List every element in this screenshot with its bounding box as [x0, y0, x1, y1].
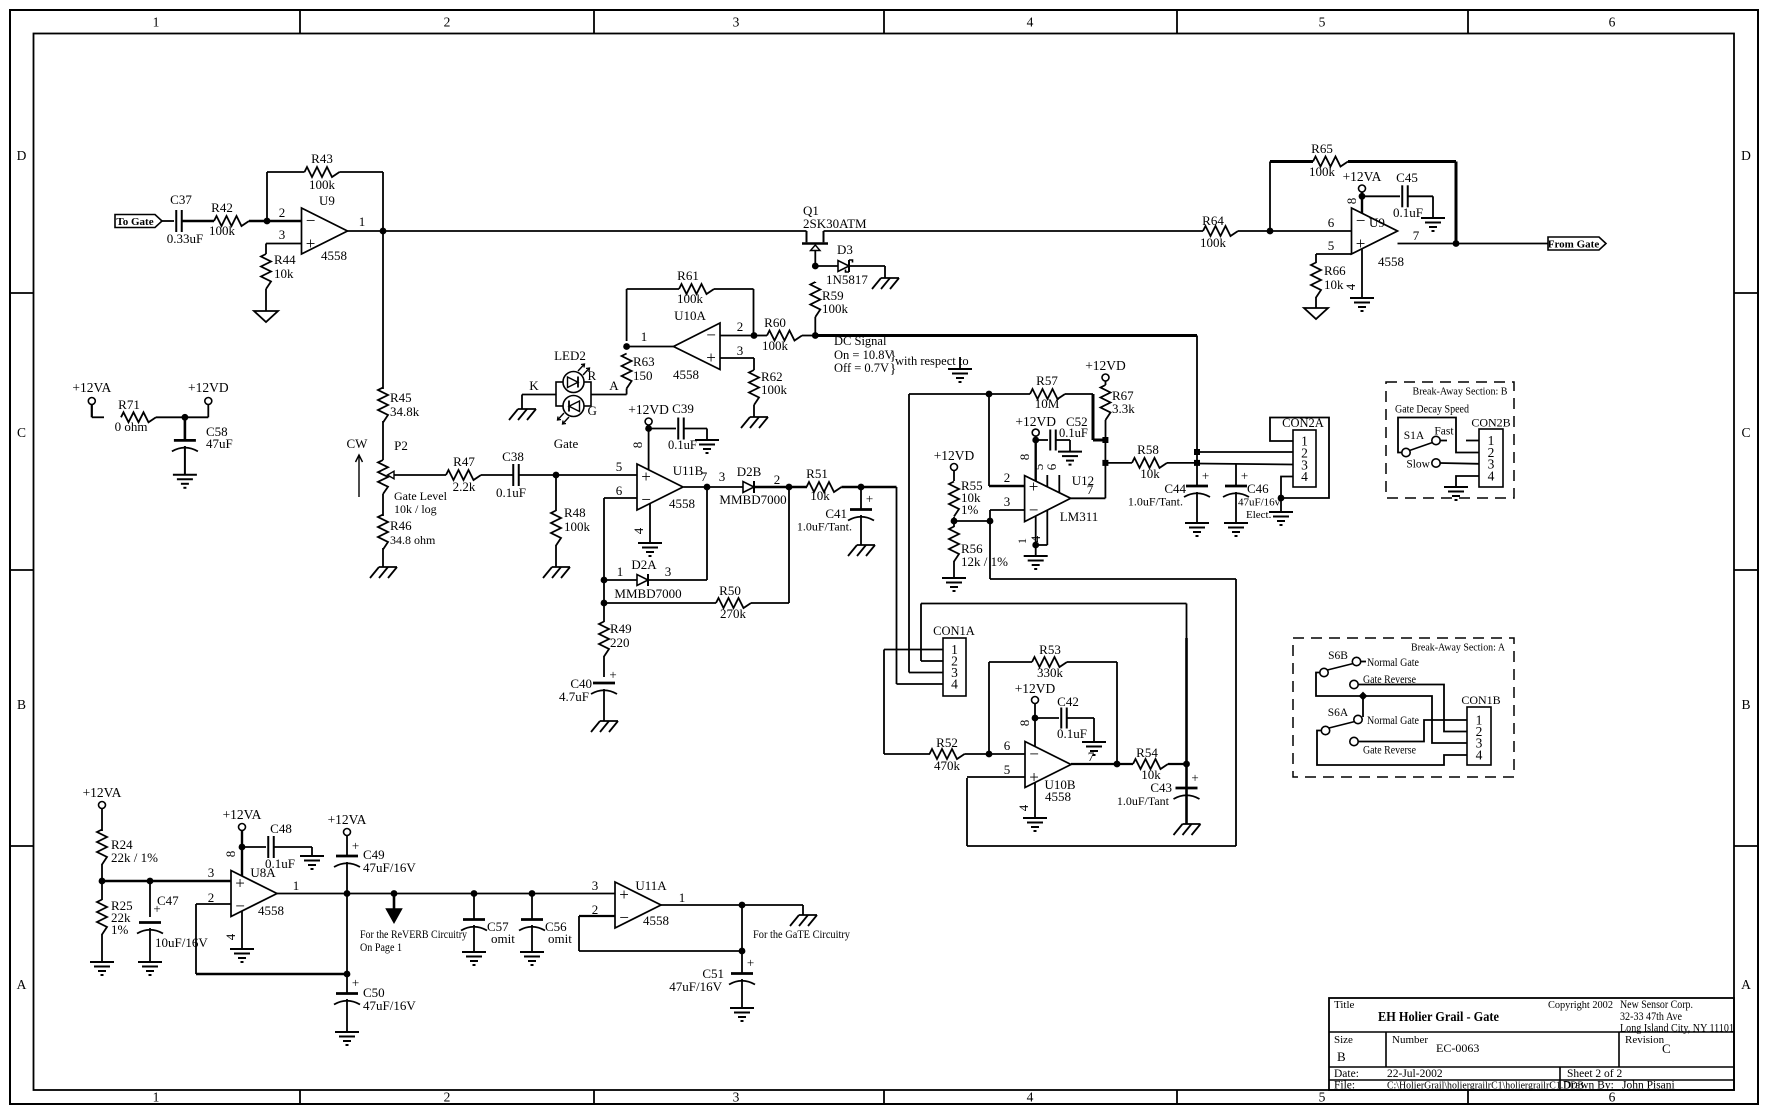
power +12VD	[628, 402, 669, 425]
wire	[990, 578, 1236, 580]
svg-text:B: B	[1741, 697, 1750, 712]
wire	[1235, 464, 1237, 487]
resistor R64	[1200, 213, 1238, 250]
svg-text:7: 7	[1413, 228, 1420, 243]
node	[751, 332, 758, 339]
wire	[815, 265, 838, 267]
CW arrow	[347, 436, 369, 497]
wire	[720, 358, 754, 370]
svg-text:R43: R43	[311, 151, 333, 166]
ground	[230, 949, 254, 962]
node A label	[609, 378, 619, 393]
wire	[1036, 439, 1048, 441]
node	[1032, 437, 1039, 444]
wire	[156, 416, 208, 418]
diode D3	[826, 242, 868, 287]
svg-text:+12VA: +12VA	[72, 380, 111, 395]
svg-text:4: 4	[223, 933, 238, 940]
wire	[265, 244, 267, 255]
node	[264, 218, 271, 225]
resistor R58	[1132, 442, 1167, 481]
ground	[543, 567, 570, 578]
svg-text:2: 2	[737, 319, 744, 334]
svg-text:Drawn By:: Drawn By:	[1563, 1080, 1614, 1092]
ground	[1304, 308, 1328, 319]
svg-text:4: 4	[1016, 804, 1031, 811]
wire	[988, 662, 990, 754]
pin 6 label	[616, 483, 623, 498]
wire	[989, 510, 991, 521]
svg-text:+12VD: +12VD	[188, 380, 229, 395]
op-amp U8A	[231, 865, 284, 918]
pin 4 stub	[1343, 249, 1362, 298]
svg-text:4: 4	[951, 677, 958, 692]
ground	[173, 475, 197, 488]
svg-text:C45: C45	[1396, 170, 1418, 185]
pin 1 stub	[1466, 440, 1479, 442]
wire	[842, 486, 897, 488]
pin 8 stub	[1017, 440, 1036, 481]
svg-text:C38: C38	[502, 449, 524, 464]
svg-text:4.7uF: 4.7uF	[559, 689, 589, 704]
wire	[207, 405, 209, 418]
svg-text:+: +	[641, 467, 651, 486]
svg-text:S6B: S6B	[1328, 650, 1348, 662]
pin 8 stub	[223, 831, 242, 876]
svg-text:R71: R71	[118, 397, 140, 412]
pin 7 label	[1087, 482, 1094, 497]
svg-text:1.0uF/Tant: 1.0uF/Tant	[1117, 794, 1170, 808]
svg-text:EC-0063: EC-0063	[1436, 1041, 1479, 1055]
svg-text:R58: R58	[1137, 442, 1159, 457]
wire	[1317, 731, 1467, 766]
wire	[242, 846, 266, 848]
svg-text:Revision: Revision	[1625, 1034, 1665, 1046]
off-page arrow	[387, 894, 402, 923]
node	[1032, 542, 1039, 549]
svg-text:C: C	[1662, 1041, 1671, 1056]
svg-text:Long Island City, NY 11101: Long Island City, NY 11101	[1620, 1023, 1734, 1035]
node	[1453, 240, 1460, 247]
node	[1032, 715, 1039, 722]
wire	[953, 517, 955, 521]
power +12VD	[1015, 414, 1056, 436]
ground	[90, 962, 114, 975]
wire	[196, 973, 347, 975]
label	[1395, 404, 1469, 416]
connector CON1B	[1461, 693, 1500, 765]
wire	[989, 661, 1032, 663]
svg-text:7: 7	[701, 469, 708, 484]
wire	[348, 230, 807, 232]
wire	[896, 487, 898, 684]
svg-text:+12VD: +12VD	[1015, 681, 1056, 696]
svg-text:Fast: Fast	[1434, 426, 1454, 438]
resistor R48	[551, 505, 591, 546]
svg-text:Break-Away Section: A: Break-Away Section: A	[1411, 642, 1505, 654]
wire	[182, 220, 214, 222]
resistor R54	[1133, 745, 1168, 782]
ground	[300, 856, 324, 869]
break-away box B	[1386, 382, 1514, 498]
svg-text:100k: 100k	[677, 291, 704, 306]
svg-text:+: +	[619, 885, 629, 904]
svg-text:4558: 4558	[669, 496, 695, 511]
capacitor C37	[167, 192, 203, 246]
svg-text:with respect to: with respect to	[895, 354, 969, 368]
resistor R60	[762, 315, 802, 353]
resistor R57	[1030, 373, 1065, 411]
svg-text:C43: C43	[1150, 780, 1172, 795]
label	[1367, 657, 1419, 669]
svg-text:R46: R46	[390, 518, 412, 533]
pin 7/3 labels	[701, 469, 726, 484]
wire	[382, 172, 384, 231]
capacitor C42	[1057, 694, 1087, 741]
pin 5 label	[616, 459, 623, 474]
ground	[638, 543, 662, 556]
pin 4 stub	[223, 911, 242, 949]
node	[99, 878, 106, 885]
wire	[967, 845, 1236, 847]
comparator U12 LM311	[1025, 473, 1099, 524]
node	[344, 890, 351, 897]
label	[1367, 715, 1419, 727]
svg-text:omit: omit	[548, 931, 572, 946]
wire	[649, 428, 676, 430]
resistor R67	[1101, 385, 1136, 420]
wire	[579, 915, 615, 917]
resistor R63	[622, 354, 655, 389]
wire	[101, 881, 103, 962]
capacitor C51	[669, 955, 755, 994]
svg-text:2SK30ATM: 2SK30ATM	[803, 216, 867, 231]
svg-text:1N5817: 1N5817	[826, 272, 868, 287]
svg-text:4: 4	[1027, 15, 1034, 30]
svg-text:470k: 470k	[934, 758, 961, 773]
pin 1/4 stubs	[1015, 510, 1047, 545]
svg-text:150: 150	[633, 368, 653, 383]
wire	[627, 346, 674, 348]
node	[1359, 193, 1366, 200]
wire	[921, 603, 1187, 605]
capacitor C41	[797, 491, 874, 534]
wire	[626, 289, 628, 341]
svg-text:4558: 4558	[673, 367, 699, 382]
resistor R66	[1311, 263, 1346, 298]
ground	[1023, 818, 1047, 831]
svg-text:+12VA: +12VA	[328, 812, 367, 827]
svg-text:+: +	[1029, 477, 1039, 496]
pin 3 label	[1004, 494, 1011, 509]
node	[391, 890, 398, 897]
svg-text:Break-Away Section: B: Break-Away Section: B	[1413, 386, 1508, 398]
capacitor C46	[1223, 468, 1281, 521]
wire	[603, 498, 605, 580]
ground	[848, 545, 875, 556]
resistor R43	[305, 151, 340, 192]
svg-text:D: D	[1741, 148, 1751, 163]
svg-text:+: +	[306, 234, 316, 253]
wire	[720, 335, 754, 337]
svg-text:R53: R53	[1039, 642, 1061, 657]
svg-text:John Pisani: John Pisani	[1622, 1080, 1675, 1092]
svg-text:Gate Reverse: Gate Reverse	[1363, 745, 1416, 757]
node	[645, 425, 652, 432]
op-amp U10B	[1025, 742, 1076, 805]
svg-text:−: −	[619, 908, 629, 927]
svg-text:10k: 10k	[1140, 466, 1160, 481]
svg-text:0.1uF: 0.1uF	[1393, 205, 1423, 220]
wire	[953, 521, 955, 578]
svg-text:−: −	[235, 897, 245, 916]
ground	[335, 1032, 359, 1045]
ground	[462, 952, 486, 965]
svg-text:MMBD7000: MMBD7000	[614, 586, 681, 601]
svg-text:R: R	[588, 368, 597, 383]
capacitor C49	[334, 838, 416, 875]
svg-text:3: 3	[733, 1090, 740, 1105]
pin 4 stub	[631, 504, 650, 543]
svg-text:+: +	[866, 491, 873, 506]
wire	[1270, 160, 1313, 163]
svg-text:B: B	[1337, 1049, 1346, 1064]
node	[601, 577, 608, 584]
pin 2 label	[279, 205, 286, 220]
wire	[1071, 763, 1133, 765]
svg-text:32-33 47th Ave: 32-33 47th Ave	[1620, 1011, 1682, 1023]
wire	[346, 836, 348, 857]
svg-text:Date:: Date:	[1334, 1068, 1359, 1080]
node	[1114, 761, 1121, 768]
wire	[909, 672, 943, 674]
title block text	[1334, 999, 1734, 1092]
capacitor C44	[1128, 468, 1210, 509]
pin 3 label	[279, 227, 286, 242]
ground	[948, 369, 972, 382]
wire	[340, 171, 384, 173]
svg-text:Gate Level: Gate Level	[394, 489, 448, 503]
wire	[266, 243, 302, 245]
svg-text:5: 5	[1004, 762, 1011, 777]
node	[858, 484, 865, 491]
svg-text:10k: 10k	[274, 266, 294, 281]
capacitor C56	[519, 919, 572, 946]
wire	[603, 689, 605, 721]
svg-text:3: 3	[592, 878, 599, 893]
wire	[162, 220, 174, 222]
svg-text:EH Holier Grail - Gate: EH Holier Grail - Gate	[1378, 1010, 1499, 1025]
resistor R62	[749, 369, 788, 405]
node	[471, 890, 478, 897]
svg-text:K: K	[529, 378, 539, 393]
wire	[921, 604, 943, 662]
svg-text:1: 1	[641, 329, 648, 344]
svg-text:2: 2	[279, 205, 286, 220]
svg-text:7: 7	[1088, 749, 1095, 764]
svg-text:5: 5	[1328, 238, 1335, 253]
capacitor C38	[496, 449, 526, 500]
svg-text:DC Signal: DC Signal	[834, 334, 887, 348]
svg-text:12k / 1%: 12k / 1%	[961, 554, 1008, 569]
svg-text:1: 1	[1015, 538, 1029, 544]
svg-text:omit: omit	[491, 931, 515, 946]
svg-text:D: D	[17, 148, 27, 163]
wire	[531, 894, 533, 953]
node	[986, 391, 993, 398]
wire	[990, 509, 1025, 511]
wire	[1196, 492, 1198, 523]
svg-text:A: A	[609, 378, 619, 393]
resistor R45	[378, 388, 420, 423]
svg-text:−: −	[1356, 211, 1366, 230]
wire	[849, 266, 885, 278]
svg-text:4: 4	[1343, 283, 1358, 290]
svg-text:100k: 100k	[564, 519, 591, 534]
wire	[1408, 196, 1433, 218]
svg-text:8: 8	[1017, 720, 1032, 727]
wire	[1269, 162, 1271, 232]
resistor R61	[677, 268, 714, 306]
svg-text:2.2k: 2.2k	[453, 479, 476, 494]
wire	[1316, 253, 1352, 255]
switch throw S6A reverse	[1350, 737, 1416, 756]
svg-text:0 ohm: 0 ohm	[115, 419, 148, 434]
svg-text:4: 4	[631, 527, 646, 534]
connector CON1A	[933, 624, 975, 696]
resistor R44	[261, 252, 296, 289]
ground	[942, 578, 966, 591]
wire	[555, 475, 557, 567]
svg-text:C46: C46	[1247, 481, 1269, 496]
svg-text:+: +	[1191, 770, 1198, 785]
wire	[1362, 195, 1400, 197]
svg-text:330k: 330k	[1037, 665, 1064, 680]
pin 6 label	[1004, 738, 1011, 753]
label	[1413, 386, 1508, 398]
node	[986, 751, 993, 758]
svg-text:0.1uF: 0.1uF	[496, 485, 526, 500]
wire	[714, 289, 754, 336]
svg-text:File:: File:	[1334, 1080, 1355, 1092]
wire	[184, 417, 187, 440]
svg-text:1.0uF/Tant.: 1.0uF/Tant.	[797, 520, 852, 534]
svg-text:22-Jul-2002: 22-Jul-2002	[1387, 1068, 1443, 1080]
wire	[661, 904, 742, 906]
transistor Q1	[802, 203, 867, 266]
wire	[578, 916, 580, 951]
note DC Signal	[834, 334, 969, 377]
capacitor C47	[137, 893, 208, 950]
resistor R52	[930, 735, 965, 773]
wire	[522, 395, 556, 410]
svg-text:C42: C42	[1057, 694, 1079, 709]
pin 5/6 stubs	[1031, 463, 1059, 492]
svg-text:+: +	[1029, 768, 1039, 787]
wire	[684, 429, 707, 441]
capacitor C39	[668, 401, 697, 452]
svg-text:U9: U9	[1369, 215, 1385, 230]
svg-text:47uF: 47uF	[206, 436, 233, 451]
svg-text:Sheet 2 of 2: Sheet 2 of 2	[1567, 1068, 1623, 1080]
svg-text:5: 5	[1319, 15, 1326, 30]
svg-text:100k: 100k	[1200, 235, 1227, 250]
svg-text:6: 6	[1004, 738, 1011, 753]
svg-text:6: 6	[1609, 1090, 1616, 1105]
svg-text:3: 3	[737, 343, 744, 358]
svg-text:+: +	[609, 667, 616, 682]
svg-text:For the GaTE Circuitry: For the GaTE Circuitry	[753, 929, 850, 941]
wire	[267, 171, 305, 173]
wire	[604, 602, 716, 604]
svg-text:R52: R52	[936, 735, 958, 750]
svg-text:5: 5	[1319, 1090, 1326, 1105]
pin 3 label	[208, 865, 215, 880]
svg-text:1: 1	[293, 878, 300, 893]
svg-text:3: 3	[733, 15, 740, 30]
wire	[884, 753, 930, 755]
svg-text:100k: 100k	[761, 382, 788, 397]
ground	[695, 440, 719, 453]
node	[1267, 228, 1274, 235]
svg-text:3.3k: 3.3k	[1112, 401, 1135, 416]
svg-text:U10A: U10A	[674, 308, 706, 323]
switch S6B	[1320, 650, 1366, 677]
wire	[884, 650, 943, 755]
wire	[754, 335, 815, 337]
svg-text:1.0uF/Tant.: 1.0uF/Tant.	[1128, 495, 1183, 509]
resistor R25	[97, 898, 133, 937]
diode D2A	[614, 557, 681, 601]
wire	[1035, 436, 1037, 440]
potentiometer P2	[378, 438, 448, 516]
svg-text:Gate: Gate	[554, 436, 579, 451]
svg-text:C37: C37	[170, 192, 192, 207]
wire	[102, 880, 231, 882]
power +12VA	[72, 380, 111, 405]
resistor R47	[446, 454, 481, 494]
svg-text:C48: C48	[270, 821, 292, 836]
pin 2 label	[1004, 470, 1011, 485]
wire	[603, 580, 605, 603]
svg-text:C39: C39	[672, 401, 694, 416]
svg-text:CON1B: CON1B	[1461, 693, 1500, 707]
note	[360, 929, 467, 954]
svg-text:+: +	[1241, 468, 1248, 483]
power +12VD	[1085, 358, 1126, 381]
node	[1183, 761, 1190, 768]
wire	[1398, 418, 1479, 453]
svg-text:P2: P2	[394, 438, 408, 453]
svg-text:U11A: U11A	[635, 878, 667, 893]
power +12VD	[1015, 681, 1056, 704]
svg-text:4558: 4558	[258, 903, 284, 918]
wire	[519, 474, 637, 476]
wire	[909, 393, 1030, 395]
pin 3 label	[592, 878, 599, 893]
pin 1 label	[679, 890, 686, 905]
capacitor C45	[1393, 170, 1423, 220]
power +12VA	[223, 807, 262, 831]
capacitor C58	[172, 424, 233, 451]
svg-text:+: +	[706, 348, 716, 367]
resistor R50	[716, 583, 751, 621]
svg-text:CON1A: CON1A	[933, 624, 975, 638]
svg-text:R48: R48	[564, 505, 586, 520]
svg-text:8: 8	[1017, 454, 1032, 461]
wire	[1197, 464, 1293, 465]
wire	[627, 288, 679, 290]
